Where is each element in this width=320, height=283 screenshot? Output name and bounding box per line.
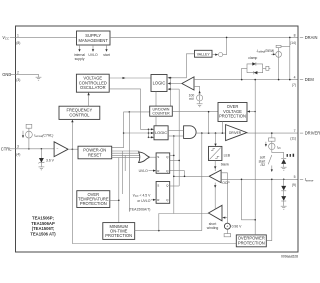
wire branch to OCP output [184,171,186,177]
junction driver line d [222,132,224,134]
svg-text:CONTROL: CONTROL [69,112,90,117]
reference 0.96 V [221,173,242,229]
wire POR output 1 [112,150,140,152]
wire up/down counter to OVP [172,111,218,113]
wire feedback vertical from flip-flop 2 [178,89,180,186]
svg-text:TEA1506P;: TEA1506P; [32,216,54,221]
block MINIMUM ON-TIME PROTECTION [103,223,135,240]
comparator CTRL [54,142,68,157]
junction bottom bus [254,219,256,221]
svg-text:(TEA1506A/T): (TEA1506A/T) [129,207,151,211]
wire Ich node to diode [272,153,284,159]
svg-text:Isense: Isense [305,177,314,183]
wire short winding comparator loop [159,214,209,231]
flip-flop 2 [156,182,170,204]
wire OVP bottom to driver line [221,122,223,134]
svg-text:DRIVER: DRIVER [305,131,320,136]
current source Ivalley(DEM) [257,45,290,79]
block SUPPLY MANAGEMENT [77,31,111,45]
zener diode 3.6 V [38,149,54,167]
junction driver line a [201,132,203,134]
wire DEM line to demag comparator [194,79,298,81]
svg-text:1: 1 [17,33,19,37]
svg-text:(9): (9) [292,183,296,187]
junction Ivalley on DEM line [278,79,280,81]
svg-text:TEA1506 AT): TEA1506 AT) [30,232,56,237]
svg-text:(7): (7) [292,83,296,87]
junction logic2 mid feed [123,132,125,134]
wire driver output to pin [247,132,298,134]
svg-text:0.96 V: 0.96 V [232,225,243,229]
arrow into logic2 input 1 [149,128,154,130]
junction sense line diode chain [283,179,285,181]
junction node on valley line [170,77,172,79]
svg-text:LOGIC: LOGIC [155,130,167,135]
arrow driver line into LEB [214,133,216,146]
svg-text:7: 7 [294,129,296,133]
svg-text:S: S [157,184,159,188]
junction AND input bus [173,135,175,137]
svg-text:or UVLO: or UVLO [137,199,151,203]
junction CTRL zener [41,148,43,150]
wire sense tap to bottom bus [242,179,256,220]
junction CTRL feedback [72,148,74,150]
junction branch OCP [184,176,186,178]
junction driver line b [208,132,210,134]
junction driver line c [215,132,217,134]
wire GND stub [16,74,39,77]
OR gate [139,152,150,163]
current source Isense(CTRL) [22,124,54,149]
arrow into logic2 input 3 [149,136,154,138]
wire protection bus down b [124,155,126,171]
wire power-on reset top output to up/down counter [112,112,150,148]
junction drain vertical top [289,37,291,39]
arrow flip-flop feedback to LOGIC [168,88,180,90]
pin DRAIN [290,33,318,45]
wire OTP output [110,199,119,201]
junction protection bus top [129,111,131,113]
junction OTP to bus [118,200,120,202]
wire long protection bus vertical [128,112,130,212]
svg-text:(4): (4) [16,152,20,156]
junction OVP on DEM vertical [254,111,256,113]
svg-text:PROTECTION: PROTECTION [105,233,132,238]
IC outer boundary box [16,26,299,252]
arrow OCP cascade to short winding [214,183,216,210]
block LEB [209,146,231,160]
arrow internal supply output [78,45,80,52]
arrow reset condition to flip-flop 2 R [151,199,156,201]
svg-text:DRAIN: DRAIN [305,35,318,40]
wire valley output to LOGIC with arrow [168,54,195,79]
block OVER TEMPERATURE PROTECTION [77,191,110,208]
AND gate [184,126,197,139]
diode to ground at Ich [281,158,286,167]
svg-text:Ivalley(DEM): Ivalley(DEM) [257,49,275,54]
wire POR output 2 [112,152,140,154]
svg-text:UVLO: UVLO [88,53,98,57]
comparator short winding [209,205,223,221]
wire flip-flop2 Q to feedback vertical [170,185,180,187]
svg-text:PROTECTION: PROTECTION [238,241,265,246]
wire CTRL comparator to power-on reset [68,148,78,150]
ground symbol 100 mV [197,104,203,107]
block LOGIC 2 [154,126,168,140]
label supply marks [287,154,288,157]
wire supply management to DRAIN [110,36,298,38]
junction clamp on DEM line [241,79,243,81]
arrow CTRL feedback to frequency control [71,120,73,150]
wire bus vertical flip-flop outputs [173,136,175,214]
svg-text:start: start [103,53,110,57]
reference 100 mV current source [194,86,203,103]
wire valley line down to up/down counter [170,78,172,106]
wire flip-flop1 inverted output [170,170,185,172]
svg-text:OCP: OCP [222,181,230,185]
ground symbol 0.96 V [224,229,231,237]
junction short winding loop [158,230,160,232]
comparator OCP [209,170,221,183]
arrow UVLO to flip-flop 1 R [149,170,157,172]
pin DRIVER [290,129,320,141]
junction sense tap [241,179,243,181]
svg-text:DEM: DEM [305,77,315,82]
svg-text:UVLO: UVLO [139,169,149,173]
svg-text:3.6 V: 3.6 V [46,159,55,163]
svg-text:winding: winding [207,226,219,230]
arrow start output [105,45,107,52]
wire flip-flop1 second output [170,159,180,161]
arrow frequency control to VCO [87,92,89,106]
wire driver line down to bottom bus [201,133,203,231]
wire LOGIC to up/down counter [155,92,157,107]
svg-text:(8): (8) [16,41,20,45]
svg-text:(11): (11) [290,137,296,141]
wire overpower output loop [266,179,272,240]
junction second output bus [178,160,180,162]
arrow reference into short winding [222,217,227,219]
junction logic2 input 2 [148,132,150,134]
arrow valley sense to circle [212,54,218,56]
svg-text:VALLEY: VALLEY [197,53,211,57]
svg-text:MANAGEMENT: MANAGEMENT [79,38,109,43]
current source Ich soft start [265,133,281,153]
wire logic2 input bus vertical [148,129,150,137]
block OVER VOLTAGE PROTECTION [218,103,247,122]
junction CTRL line current source [28,148,30,150]
svg-text:(3): (3) [16,78,20,82]
pin GND [2,70,20,82]
junction logic2 input 3 [148,137,150,139]
svg-text:3: 3 [17,145,19,149]
pin Isense [292,175,314,187]
wire CTRL feedback down to overpower loop [72,149,236,243]
svg-text:+: + [226,225,228,229]
wire VCO clock to logic 2 [109,89,148,129]
wire protection bus down to minimum on-time [118,158,120,223]
ground symbol zener [39,167,45,170]
pin DEM [292,76,315,88]
wire VCO to LOGIC top with arrow [109,77,151,79]
svg-text:009aaa528: 009aaa528 [281,254,298,258]
diode chain below sense [281,179,286,206]
pin VCC [2,33,20,45]
clamp diode pair DEM [242,56,271,79]
block UP/DOWN COUNTER [150,106,173,116]
svg-text:VCC < 4.5 V: VCC < 4.5 V [132,194,151,199]
wire logic2 to AND input 2 [168,135,184,137]
svg-text:clamp: clamp [248,56,257,60]
svg-text:DRIVER: DRIVER [229,131,242,135]
ground symbol GND pin [36,77,42,80]
wire mid feed to logic2 [124,132,149,134]
svg-text:(TEA1506T;: (TEA1506T; [32,226,55,231]
node circle drain sense [219,53,223,57]
svg-text:(14): (14) [290,41,296,45]
wire OVP feed down [208,112,210,133]
svg-text:Ich: Ich [277,146,281,151]
wire VCC to supply management [16,36,77,38]
junction DEM line ovp vertical [254,79,256,81]
svg-text:PROTECTION: PROTECTION [219,114,246,119]
wire AND output to driver [196,132,226,134]
wire OR to flip-flop 1 S [150,156,157,158]
arrow Ich current into sense [271,166,273,173]
driver amplifier triangle [226,125,247,141]
wire circle to drain line [223,37,227,54]
arrow UVLO output [92,45,94,52]
svg-text:LEB: LEB [224,154,231,158]
block OVERPOWER PROTECTION [236,235,266,247]
junction flip-flop1 Q bus [173,155,175,157]
junction driver line Ich [271,132,273,134]
svg-text:Isense(CTRL): Isense(CTRL) [34,133,53,138]
svg-text:UP/DOWN: UP/DOWN [153,107,170,111]
pin CTRL [1,145,21,157]
wire CTRL line [16,148,55,150]
junction logic2 input 1 [148,129,150,131]
svg-text:COUNTER: COUNTER [152,112,170,116]
flip-flop 1 [156,153,170,173]
svg-text:supply: supply [75,57,85,61]
block FREQUENCY CONTROL [59,106,100,119]
arrow DEM sense into OVP [247,110,255,112]
block VALLEY [195,50,213,57]
junction sense line Ich [271,179,273,181]
svg-text:S: S [157,155,159,159]
svg-text:OSCILLATOR: OSCILLATOR [80,85,106,90]
wire minimum on-time output [135,230,202,232]
svg-text:VCC: VCC [2,35,10,41]
svg-text:blank: blank [221,163,229,167]
svg-text:LOGIC: LOGIC [153,81,166,86]
svg-text:RESET: RESET [88,153,102,158]
svg-text:mV: mV [189,97,195,101]
block VOLTAGE CONTROLLED OSCILLATOR [76,74,109,92]
wire DEM vertical to overpower protection [254,80,256,235]
svg-text:PROTECTION: PROTECTION [80,201,107,206]
svg-text:8: 8 [294,33,296,37]
wire OCP output to bus [174,175,209,177]
svg-text:2: 2 [17,70,19,74]
ground symbol Ich diode [281,167,287,170]
junction drain line [226,37,228,39]
junction drain vertical bottom [289,79,291,81]
svg-text:/32: /32 [260,163,265,167]
junction OCP output bus [173,176,175,178]
arrow demag comparator to LOGIC [168,82,182,84]
svg-text:4: 4 [294,76,296,80]
arrow LEB blank to OCP [214,161,216,172]
wire up/down counter to logic 2 [155,116,157,126]
block POWER-ON RESET [78,146,112,159]
comparator demag [182,77,194,90]
arrow into logic2 input 2 [149,132,154,134]
svg-text:TEA1506AP: TEA1506AP [31,221,55,226]
type number list [30,216,56,237]
wire drain to DEM vertical [289,37,291,79]
wire logic2 to AND input 1 [168,130,184,132]
ground symbol diode chain [281,206,287,209]
svg-text:5: 5 [294,175,296,179]
block LOGIC [151,75,167,92]
soft start switch [259,155,272,167]
wire sense line [221,178,297,180]
wire POR output 4 [112,157,141,159]
wire protection bus down a [122,151,124,194]
label VCC < 4.5 V reset [129,194,151,212]
wire POR output 3 [112,154,140,156]
wire flip-flop1 Q to bus [170,154,174,156]
svg-text:−: − [56,147,58,151]
junction on up/down-OVP line [208,111,210,113]
